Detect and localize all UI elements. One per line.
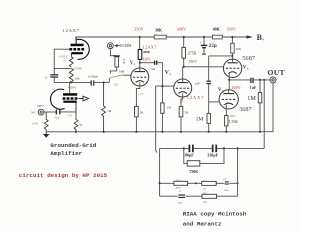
resistor 1M MC load [102, 82, 106, 131]
wire RIAA row1 [160, 182, 238, 184]
node dot row1 left [159, 182, 161, 184]
wire V2b plate to V3 grid [184, 66, 224, 68]
wire plate node left to coupling [209, 55, 233, 57]
svg-text:and Marantz: and Marantz [183, 221, 222, 228]
svg-text:IN/MM: IN/MM [120, 44, 132, 48]
svg-text:30k: 30k [75, 77, 80, 81]
svg-text:10V: 10V [230, 114, 237, 118]
svg-text:~μf: ~μf [44, 76, 48, 79]
node dot V3 cathode [228, 79, 230, 81]
wire V3 cathode down to V4 plate [228, 80, 230, 90]
wire plate node line [54, 81, 91, 83]
svg-text:RIAA copy Mcintosh: RIAA copy Mcintosh [183, 211, 247, 218]
svg-text:300V: 300V [177, 27, 187, 32]
svg-text:circuit design by HP 2015: circuit design by HP 2015 [19, 172, 108, 179]
capacitor 1uF output [251, 78, 253, 83]
svg-text:5K: 5K [140, 111, 145, 115]
ground symbol [43, 132, 50, 138]
capacitor 330pF RIAA [213, 145, 217, 153]
svg-text:5687: 5687 [239, 106, 251, 113]
svg-text:200V: 200V [231, 85, 240, 90]
wire B+ rail [76, 37, 247, 44]
svg-text:MC: MC [114, 82, 119, 86]
resistor 750K [184, 148, 224, 166]
svg-text:1M: 1M [167, 106, 172, 110]
resistor R3 row2 [202, 194, 217, 198]
capacitor grid bypass [50, 75, 58, 83]
node dot out 1M tap [259, 79, 261, 81]
node dots RIAA top [183, 147, 239, 149]
jack IN/MM [108, 43, 114, 49]
resistor 50R [231, 43, 235, 53]
resistor R2 row1 [202, 181, 217, 185]
svg-text:750K: 750K [189, 169, 199, 174]
wire plate node to cap [140, 62, 155, 64]
wire 50R top stem [231, 37, 233, 43]
wire grid V1a to left [54, 49, 69, 74]
wire plate stem V2a to rail [139, 37, 141, 50]
resistor 100K [44, 112, 48, 132]
svg-text:Amplifier: Amplifier [50, 150, 82, 157]
svg-text:.1uF: .1uF [194, 81, 200, 85]
node dot V2b grid [161, 85, 163, 87]
svg-text:130V: 130V [142, 58, 151, 62]
wire 50R to V3 plate [231, 53, 233, 59]
tube V2b [174, 67, 192, 98]
svg-text:.5uf: .5uf [150, 67, 156, 71]
capacitor C11 [225, 182, 229, 184]
wire V4 grid [209, 101, 220, 103]
node dot plate junction [70, 81, 72, 83]
svg-text:12AX7: 12AX7 [142, 44, 157, 49]
capacitor 0.5Mfd [91, 80, 109, 85]
svg-text:47K: 47K [122, 59, 126, 65]
node dot V2a plate [139, 62, 141, 64]
svg-text:1M: 1M [247, 95, 256, 102]
svg-text:30K: 30K [155, 29, 162, 33]
label B+ [257, 33, 265, 42]
svg-text:40K: 40K [213, 28, 220, 32]
svg-text:2: 2 [169, 72, 171, 76]
wire switch to V2a grid [123, 74, 131, 76]
svg-text:100μF: 100μF [183, 153, 194, 158]
label V2 second [165, 70, 172, 76]
tube V3 upper 5687 [223, 59, 241, 80]
svg-text:1.5V: 1.5V [138, 92, 145, 96]
wire cap to cathode [60, 111, 76, 113]
svg-text:500p: 500p [178, 202, 184, 205]
wire grid node left and down to RIAA [156, 86, 163, 152]
node dot MC line 1M tap [103, 81, 105, 83]
resistor 275K [182, 47, 186, 58]
svg-text:330pF: 330pF [207, 153, 218, 158]
resistor 1k cathode [74, 112, 78, 132]
wire jack down [110, 49, 116, 56]
svg-text:100K: 100K [32, 122, 40, 126]
resistor 1M V4 grid [207, 113, 210, 131]
resistor 40K [213, 35, 223, 39]
svg-text:Grounded-Grid: Grounded-Grid [50, 142, 96, 149]
wire MM to switch contact [110, 67, 116, 74]
label V2 first [130, 61, 136, 66]
node dot V2b plate [183, 66, 185, 68]
wire RIAA top line [160, 147, 265, 149]
node dot riser top [263, 79, 265, 81]
resistor 5K V2b cathode [179, 98, 183, 132]
resistor 47K MM load [115, 57, 119, 67]
capacitor row2 [178, 195, 185, 197]
svg-text:275K: 275K [188, 50, 197, 55]
svg-text:+150V: +150V [73, 67, 83, 71]
label V4 [218, 88, 224, 93]
node dots ground bus [75, 131, 228, 133]
wire coupling line from plate node [208, 56, 210, 81]
svg-text:400K: 400K [143, 50, 151, 54]
wire jack to cap [44, 111, 56, 113]
svg-text:input: input [37, 103, 44, 107]
jack MC input [38, 109, 44, 115]
svg-text:190V: 190V [188, 59, 197, 64]
svg-text:1K: 1K [203, 187, 206, 190]
resistor 5K V2a cathode [135, 87, 140, 132]
svg-text:390V: 390V [227, 27, 237, 32]
svg-text:MM: MM [119, 69, 125, 73]
tube V1a upper half 12AX7 [69, 37, 89, 59]
svg-text:22μ: 22μ [209, 43, 217, 49]
svg-text:+: + [200, 40, 202, 44]
wire cap to OUT jack [253, 79, 270, 81]
wire RIAA right riser [237, 148, 239, 196]
grid ground arrow [78, 96, 88, 101]
svg-text:250V: 250V [134, 26, 144, 31]
svg-text:+151V: +151V [59, 54, 69, 58]
node dot row1 mid [195, 182, 197, 184]
svg-text:1M: 1M [107, 109, 111, 113]
label V3 [243, 66, 249, 71]
resistor 1M grid leak V2b [161, 86, 164, 132]
wire RIAA row2 [160, 195, 238, 197]
svg-text:100p: 100p [224, 189, 230, 192]
svg-text:12AX7: 12AX7 [187, 95, 205, 100]
wire jack ground [260, 83, 273, 132]
switch arm [110, 75, 123, 78]
node B+ arrow [247, 35, 254, 38]
wire 22uF top stem [203, 37, 205, 45]
capacitor 22uF [201, 45, 207, 54]
resistor 1.35K [225, 116, 228, 132]
wire grid junction horizontal [54, 67, 71, 69]
capacitor 10uf [56, 110, 59, 115]
resistor 30K [154, 35, 166, 39]
svg-text:12AX7: 12AX7 [63, 28, 80, 33]
node dot bus right end [259, 131, 261, 133]
wire V1b plate stem [69, 82, 71, 93]
capacitor 100uF RIAA [189, 145, 193, 153]
arrow into jack [114, 44, 120, 47]
svg-text:MC: MC [31, 111, 36, 115]
svg-text:1uF: 1uF [250, 86, 257, 90]
svg-text:5K: 5K [185, 111, 190, 115]
resistor R1 row1 [174, 181, 188, 185]
resistor upper cathode [69, 57, 73, 68]
resistor 400K [138, 50, 142, 60]
wire 275K top stem [183, 37, 185, 47]
tube V2a [131, 63, 149, 87]
svg-text:10uf: 10uf [54, 117, 59, 120]
svg-text:OUT: OUT [268, 68, 285, 77]
tube V1b lower half 12AX7 [51, 89, 79, 112]
svg-text:1M: 1M [196, 117, 204, 123]
resistor 30k [69, 68, 73, 82]
tube V4 lower 5687 [219, 90, 238, 116]
wire RIAA left riser [159, 148, 161, 196]
capacitor coupling .1uF [206, 81, 211, 83]
wire MC contact stub [108, 78, 110, 83]
svg-text:50R: 50R [236, 47, 242, 51]
ground bus [46, 131, 260, 133]
svg-text:+: + [262, 37, 265, 42]
wire RIAA riser right [263, 80, 265, 148]
node dot row1 right [237, 182, 239, 184]
svg-text:0.5Mμf: 0.5Mμf [88, 75, 99, 79]
wire 275K to plate node [183, 58, 185, 67]
svg-text:47K: 47K [203, 201, 208, 204]
junction dots on rail [139, 36, 234, 38]
wire 400K to plate node [139, 59, 141, 62]
wire cathode to output cap [229, 79, 251, 81]
svg-text:2V: 2V [180, 99, 185, 103]
svg-text:1.35K: 1.35K [229, 120, 239, 124]
resistor 1M output [258, 80, 262, 132]
wire cap to grid node [157, 63, 163, 86]
svg-text:+1V: +1V [67, 113, 73, 117]
jack OUT [270, 77, 276, 83]
svg-text:5687: 5687 [242, 55, 256, 62]
wire coupling cap down [208, 84, 210, 114]
capacitor .5uf coupling [155, 61, 157, 65]
svg-text:+160V: +160V [67, 86, 77, 90]
node dot 50R bottom [231, 55, 233, 57]
wire grid node to V2b [162, 85, 173, 87]
